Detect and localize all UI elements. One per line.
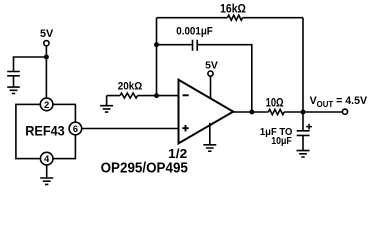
- node: bypass junction: [44, 55, 49, 60]
- ground (op-amp): [203, 145, 216, 151]
- pin 4: [40, 152, 53, 165]
- wire op-amp V- to ground: [209, 123, 211, 145]
- resistor R3 10 ohm zigzag: [268, 109, 284, 114]
- ground (bypass cap): [7, 87, 20, 93]
- wire cap to ground: [13, 76, 15, 87]
- svg-text:10Ω: 10Ω: [266, 96, 284, 109]
- svg-text:4: 4: [44, 154, 50, 165]
- svg-text:5V: 5V: [205, 60, 218, 71]
- resistor R1 20k zigzag: [120, 93, 138, 98]
- svg-text:5V: 5V: [40, 28, 54, 40]
- ground (20k): [100, 106, 113, 112]
- svg-text:6: 6: [73, 124, 78, 135]
- minus sign: [183, 94, 189, 96]
- wire junction to bypass cap: [14, 57, 47, 71]
- wire cap branch left: [157, 44, 192, 46]
- VOUT terminal: [342, 109, 347, 114]
- svg-text:0.001μF: 0.001μF: [176, 26, 213, 38]
- svg-text:1/2: 1/2: [168, 147, 187, 161]
- node: output junction: [249, 110, 254, 115]
- wire cap branch right: [198, 45, 252, 112]
- wire VOUT junction to output cap: [302, 112, 304, 131]
- svg-text:2: 2: [44, 100, 49, 111]
- resistor R2 16k zigzag: [228, 15, 243, 20]
- node: cap branch junction: [154, 42, 159, 47]
- 5V terminal (left): [44, 41, 49, 46]
- 5V terminal (op-amp): [208, 71, 213, 76]
- op-amp U1 triangle: [179, 80, 234, 144]
- svg-text:20kΩ: 20kΩ: [118, 81, 143, 93]
- svg-text:REF43: REF43: [25, 123, 65, 139]
- wire top feedback line: [157, 17, 304, 19]
- REF43 U2 box: [16, 104, 76, 158]
- wire 20k left to ground: [106, 96, 108, 106]
- pin 6: [69, 122, 82, 135]
- wire 16k right vertical: [302, 18, 304, 112]
- capacitor C1 (bypass): [7, 72, 20, 76]
- wire 5V terminal to pin 2: [45, 46, 47, 98]
- capacitor C2 0.001uF: [193, 40, 198, 51]
- ground (REF43): [40, 178, 53, 184]
- plus sign: [182, 125, 188, 131]
- capacitor C3 output: [297, 131, 310, 136]
- wire cap to ground: [302, 135, 304, 150]
- svg-text:16kΩ: 16kΩ: [220, 2, 246, 16]
- wire feedback left vertical: [156, 18, 158, 96]
- wire pin 4 to ground: [46, 165, 48, 178]
- wire pin 6 to op-amp + input: [82, 128, 179, 130]
- wire output rail: [233, 111, 342, 113]
- node: inverting input junction: [154, 93, 159, 98]
- svg-text:OP295/OP495: OP295/OP495: [101, 160, 188, 176]
- node: VOUT junction: [301, 110, 306, 115]
- plus polarity mark: [306, 124, 312, 130]
- pin 2: [40, 98, 53, 111]
- wire - input rail: [107, 95, 179, 97]
- ground (output cap): [297, 151, 310, 157]
- svg-text:10μF: 10μF: [271, 136, 292, 147]
- wire op-amp V+: [210, 76, 212, 98]
